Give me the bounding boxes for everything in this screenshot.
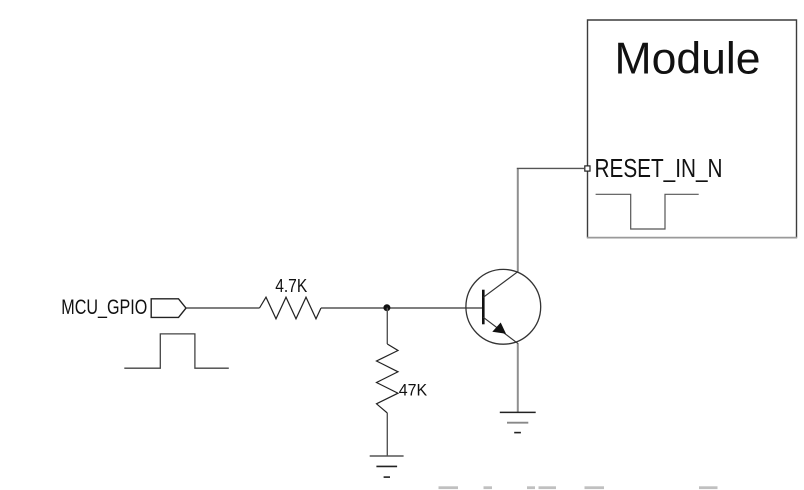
svg-text:47K: 47K (399, 381, 427, 399)
svg-text:4.7K: 4.7K (275, 275, 308, 296)
svg-text:Module: Module (615, 35, 761, 84)
svg-text:RESET_IN_N: RESET_IN_N (595, 155, 723, 183)
svg-text:MCU_GPIO: MCU_GPIO (61, 296, 147, 319)
